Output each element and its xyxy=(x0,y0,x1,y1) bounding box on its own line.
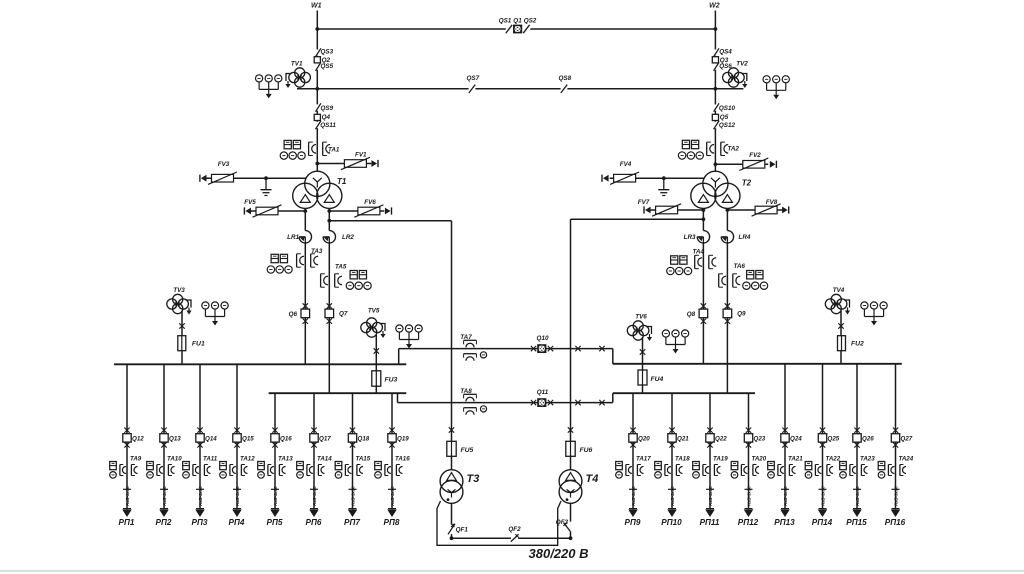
svg-text:Q22: Q22 xyxy=(715,436,727,443)
svg-text:TA2: TA2 xyxy=(728,146,740,153)
svg-text:TV3: TV3 xyxy=(173,287,185,294)
svg-text:TV4: TV4 xyxy=(833,287,845,294)
svg-text:Q19: Q19 xyxy=(397,436,409,443)
svg-text:РП13: РП13 xyxy=(774,518,795,527)
svg-text:FU1: FU1 xyxy=(192,341,205,348)
svg-text:Q25: Q25 xyxy=(828,436,840,443)
svg-text:Q14: Q14 xyxy=(205,436,217,443)
svg-text:Q9: Q9 xyxy=(737,310,746,317)
svg-text:FV4: FV4 xyxy=(620,161,632,168)
svg-text:FV2: FV2 xyxy=(749,152,761,159)
svg-text:РП10: РП10 xyxy=(661,518,682,527)
svg-text:Q4: Q4 xyxy=(322,114,331,121)
svg-text:FU2: FU2 xyxy=(851,341,864,348)
svg-text:Q11: Q11 xyxy=(537,389,549,396)
svg-text:QS2: QS2 xyxy=(524,18,537,25)
svg-text:Q13: Q13 xyxy=(169,436,181,443)
svg-text:TA12: TA12 xyxy=(240,455,255,462)
svg-text:Q12: Q12 xyxy=(132,436,144,443)
svg-text:Q7: Q7 xyxy=(339,310,348,317)
svg-text:LR2: LR2 xyxy=(342,234,354,241)
svg-text:Q27: Q27 xyxy=(901,436,913,443)
svg-text:Q23: Q23 xyxy=(754,436,766,443)
svg-text:TA1: TA1 xyxy=(328,147,340,154)
svg-text:FV7: FV7 xyxy=(638,199,650,206)
svg-text:РП11: РП11 xyxy=(700,518,720,527)
svg-text:LR4: LR4 xyxy=(739,234,751,241)
svg-text:FU4: FU4 xyxy=(651,376,664,383)
svg-text:QS9: QS9 xyxy=(321,105,334,112)
svg-text:FV1: FV1 xyxy=(355,151,367,158)
svg-text:Q1: Q1 xyxy=(513,18,522,25)
svg-text:РП5: РП5 xyxy=(267,518,283,527)
svg-text:TA20: TA20 xyxy=(752,455,767,462)
svg-text:FU6: FU6 xyxy=(580,447,593,454)
svg-text:РП8: РП8 xyxy=(384,518,400,527)
svg-text:Q6: Q6 xyxy=(289,311,298,318)
svg-text:TV5: TV5 xyxy=(368,307,380,314)
svg-text:РП9: РП9 xyxy=(625,518,641,527)
svg-text:TA24: TA24 xyxy=(899,455,914,462)
svg-text:QS5: QS5 xyxy=(321,63,334,70)
svg-text:FV8: FV8 xyxy=(766,199,778,206)
svg-text:TA15: TA15 xyxy=(356,455,371,462)
svg-text:Q8: Q8 xyxy=(687,311,696,318)
svg-text:TA22: TA22 xyxy=(826,455,841,462)
svg-text:TA16: TA16 xyxy=(395,455,410,462)
svg-text:РП2: РП2 xyxy=(156,518,172,527)
svg-text:LR1: LR1 xyxy=(287,234,299,241)
svg-text:TV6: TV6 xyxy=(635,313,647,320)
svg-text:TA13: TA13 xyxy=(278,455,293,462)
svg-text:РП3: РП3 xyxy=(192,518,208,527)
svg-text:РП1: РП1 xyxy=(119,518,135,527)
svg-text:Q20: Q20 xyxy=(638,436,650,443)
svg-text:РП15: РП15 xyxy=(846,518,867,527)
svg-text:QS10: QS10 xyxy=(719,105,736,112)
svg-text:LR3: LR3 xyxy=(684,234,696,241)
svg-text:TA10: TA10 xyxy=(167,455,182,462)
svg-text:W2: W2 xyxy=(709,2,720,9)
svg-text:T1: T1 xyxy=(337,177,347,186)
svg-text:РП14: РП14 xyxy=(812,518,833,527)
svg-text:QS4: QS4 xyxy=(719,49,732,56)
svg-text:Q5: Q5 xyxy=(720,114,729,121)
svg-text:TA18: TA18 xyxy=(675,455,690,462)
svg-text:QS7: QS7 xyxy=(466,75,479,82)
svg-text:TA23: TA23 xyxy=(860,455,875,462)
svg-text:TA6: TA6 xyxy=(734,263,746,270)
svg-text:TV2: TV2 xyxy=(736,60,748,67)
svg-text:QF2: QF2 xyxy=(508,526,521,533)
svg-text:TA7: TA7 xyxy=(460,334,472,341)
svg-text:QS11: QS11 xyxy=(320,122,336,129)
svg-text:FU5: FU5 xyxy=(461,447,474,454)
svg-text:TA19: TA19 xyxy=(713,455,728,462)
svg-text:РП7: РП7 xyxy=(344,518,360,527)
svg-text:T3: T3 xyxy=(467,473,480,485)
svg-text:TA14: TA14 xyxy=(317,455,332,462)
svg-text:РП12: РП12 xyxy=(738,518,759,527)
svg-text:QS8: QS8 xyxy=(558,75,571,82)
svg-text:FU3: FU3 xyxy=(385,377,398,384)
svg-text:РП16: РП16 xyxy=(885,518,906,527)
svg-text:Q21: Q21 xyxy=(677,436,689,443)
svg-text:TA5: TA5 xyxy=(335,264,347,271)
svg-text:QF1: QF1 xyxy=(456,526,469,533)
svg-text:TA17: TA17 xyxy=(636,455,651,462)
svg-text:TA8: TA8 xyxy=(460,388,472,395)
svg-text:Q18: Q18 xyxy=(358,436,370,443)
svg-text:Q24: Q24 xyxy=(790,436,802,443)
svg-text:QS1: QS1 xyxy=(499,18,512,25)
svg-text:РП6: РП6 xyxy=(306,518,322,527)
svg-text:TA3: TA3 xyxy=(311,248,323,255)
svg-text:Q15: Q15 xyxy=(242,436,254,443)
svg-text:FV3: FV3 xyxy=(218,161,230,168)
svg-text:РП4: РП4 xyxy=(229,518,245,527)
svg-text:TA21: TA21 xyxy=(788,455,803,462)
svg-text:T4: T4 xyxy=(586,473,599,485)
svg-text:380/220 В: 380/220 В xyxy=(529,546,589,561)
svg-text:QS3: QS3 xyxy=(321,49,334,56)
svg-text:Q17: Q17 xyxy=(319,436,331,443)
svg-text:FV6: FV6 xyxy=(364,199,376,206)
svg-text:Q10: Q10 xyxy=(537,335,549,342)
svg-text:TV1: TV1 xyxy=(291,60,303,67)
svg-text:FV5: FV5 xyxy=(244,199,256,206)
svg-text:Q16: Q16 xyxy=(280,436,292,443)
svg-text:TA4: TA4 xyxy=(693,249,705,256)
svg-text:W1: W1 xyxy=(311,2,322,9)
svg-text:T2: T2 xyxy=(742,179,752,188)
svg-text:TA11: TA11 xyxy=(203,455,218,462)
svg-text:Q26: Q26 xyxy=(862,436,874,443)
svg-text:QS12: QS12 xyxy=(719,122,736,129)
svg-text:TA9: TA9 xyxy=(130,455,142,462)
